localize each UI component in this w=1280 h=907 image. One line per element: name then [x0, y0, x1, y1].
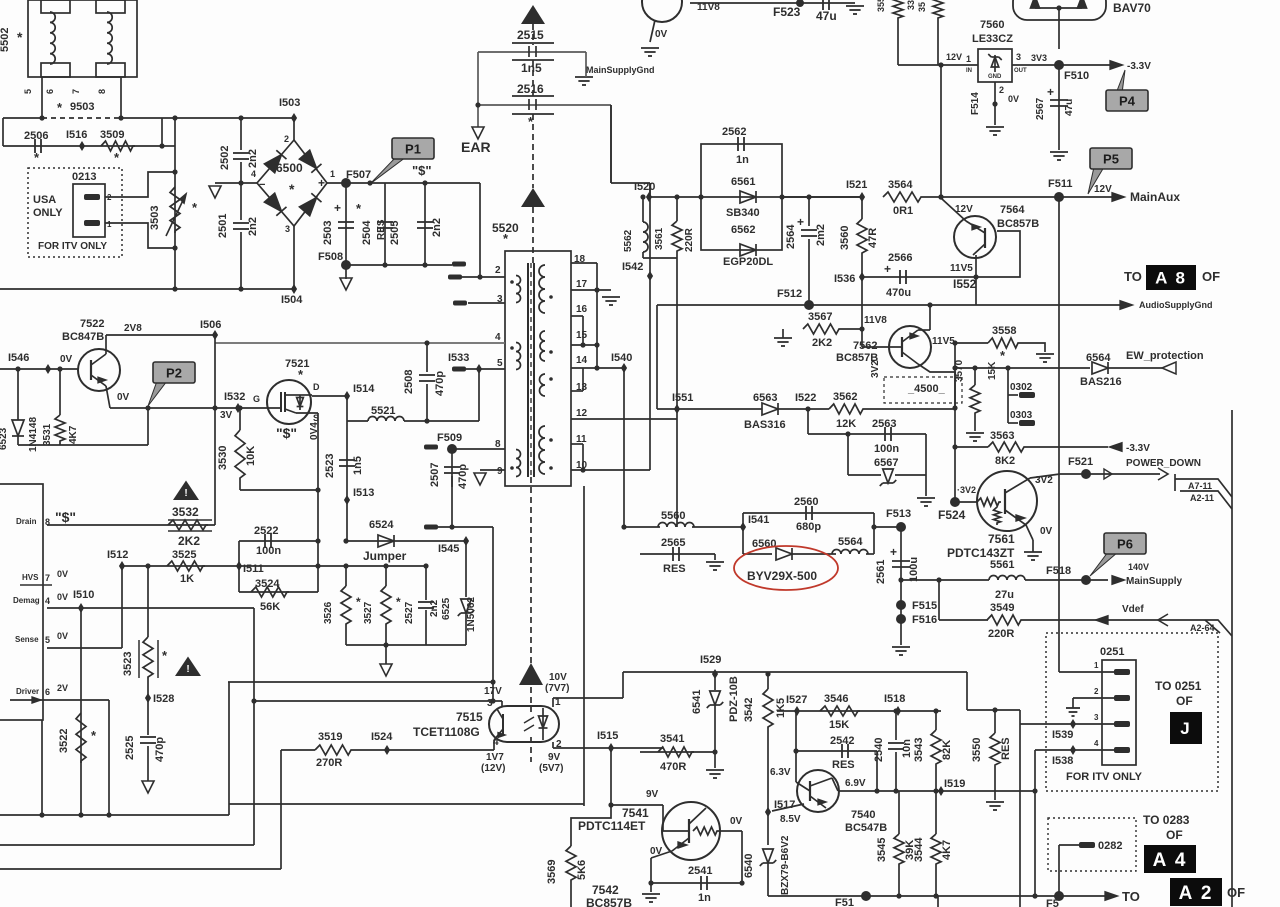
svg-text:3525: 3525	[172, 549, 196, 561]
wire 6523 bottom	[17, 436, 19, 445]
junction	[648, 880, 653, 885]
svg-text:POWER_DOWN: POWER_DOWN	[1126, 458, 1201, 469]
wire rail 566 ext	[318, 565, 426, 567]
node F521	[1081, 469, 1091, 479]
junction	[871, 524, 876, 529]
mosfet body diode link	[299, 395, 301, 410]
svg-text:MainSupply: MainSupply	[1126, 576, 1183, 587]
wire 2542 right drop	[876, 751, 878, 791]
wire pin14 I540	[571, 367, 624, 369]
resistor 3523	[143, 637, 153, 679]
resistor 3542 1K5	[763, 689, 773, 729]
mosfet 7521	[267, 380, 311, 424]
arrow -3.3V right	[1109, 443, 1122, 452]
svg-text:2527: 2527	[404, 601, 415, 624]
junction	[952, 444, 957, 449]
svg-text:P6: P6	[1117, 537, 1133, 552]
diode 6561 SB340	[740, 191, 756, 203]
wire 3541 rail	[640, 751, 715, 753]
tag A7-11 outline	[1175, 479, 1232, 497]
wire 2507 drop	[451, 449, 453, 487]
wire 7564 emitter up	[942, 199, 966, 221]
pad bottom	[424, 525, 438, 530]
junction	[952, 405, 957, 410]
ground F516	[892, 647, 910, 655]
svg-text:I513: I513	[353, 487, 374, 499]
transformer core left	[527, 263, 529, 477]
transistor 7541 emitter	[672, 838, 689, 851]
wire 0251 pin1	[1059, 671, 1114, 673]
wire rail I512-I511	[122, 565, 318, 567]
wire mainsupply rail a	[901, 579, 989, 581]
wire ycap link	[478, 51, 586, 53]
wire F524 base	[955, 501, 977, 503]
svg-text:2541: 2541	[688, 865, 712, 877]
svg-text:I539: I539	[1052, 729, 1073, 741]
pad pin3	[453, 301, 467, 306]
capacitor 2566 470u	[900, 270, 906, 284]
regulator glyph stem	[994, 55, 996, 72]
wire I546 base	[0, 368, 78, 370]
resistor 3560 47R	[857, 219, 867, 255]
transistor 7540 emitter arrow	[818, 799, 826, 805]
junction	[927, 302, 932, 307]
wire join 5562 3561	[643, 257, 677, 259]
svg-text:7542: 7542	[592, 883, 619, 897]
wire 2527 bot	[425, 610, 427, 645]
3523 side bar right	[157, 640, 159, 678]
svg-text:2522: 2522	[254, 525, 278, 537]
tag A2-64 diag	[1205, 620, 1220, 633]
svg-text:7522: 7522	[80, 318, 104, 330]
svg-text:EW_protection: EW_protection	[1126, 350, 1204, 362]
wire F511 bus down	[1058, 197, 1060, 672]
wire 3561 top	[676, 197, 678, 221]
svg-text:1K: 1K	[180, 573, 194, 585]
wire bridge out to F507	[327, 182, 346, 184]
junction	[898, 577, 903, 582]
ground 3567	[774, 338, 792, 346]
transistor 7541 emitter arrow	[678, 842, 687, 848]
junction	[238, 115, 243, 120]
svg-text:I503: I503	[279, 97, 300, 109]
svg-text:PDTC114ET: PDTC114ET	[578, 819, 646, 833]
svg-text:3562: 3562	[833, 391, 857, 403]
svg-text:2563: 2563	[872, 418, 896, 430]
transistor 7564	[954, 216, 996, 258]
svg-text:"$": "$"	[412, 163, 432, 178]
bridge 6500 outline	[257, 140, 327, 226]
node I503	[291, 113, 297, 123]
opto led	[539, 716, 548, 728]
transformer 5502 pad top-right	[96, 0, 125, 13]
wire opto pin4 rail	[353, 749, 494, 751]
wire 3558 gnd	[1020, 343, 1045, 352]
node I520	[646, 192, 652, 202]
resistor 3561 220R	[672, 221, 682, 253]
capacitor 2503	[338, 222, 354, 228]
svg-text:G: G	[253, 394, 260, 404]
resistor 3569 5K6	[566, 846, 576, 882]
winding dot	[510, 346, 514, 350]
wire I529 rail corner	[966, 672, 968, 710]
diode BAV70 left	[1031, 0, 1040, 8]
pad 0303	[1019, 420, 1035, 426]
node F524	[950, 497, 960, 507]
capacitor 2n2	[417, 222, 433, 228]
junction	[237, 405, 242, 410]
wire 0213 pin1	[105, 223, 175, 248]
svg-text:3523: 3523	[122, 652, 134, 676]
node I521	[859, 192, 865, 202]
svg-text:SB340: SB340	[726, 207, 760, 219]
wire 3543 drop	[935, 711, 937, 730]
wire 3550 drop	[994, 710, 996, 733]
svg-text:3567: 3567	[808, 311, 832, 323]
junction	[343, 538, 348, 543]
wire 0302 stub	[1008, 394, 1018, 396]
svg-text:0R1: 0R1	[893, 205, 913, 217]
wire 3563 rail	[955, 446, 988, 448]
wire mainsupply rail b	[1025, 579, 1108, 581]
svg-text:I504: I504	[281, 294, 303, 306]
box J	[1170, 712, 1202, 744]
junction	[159, 143, 164, 148]
svg-text:1V7: 1V7	[486, 752, 504, 763]
wire 3530 bottom	[239, 480, 241, 490]
wire transformer left drop	[583, 486, 585, 806]
ground arrow 2525	[142, 781, 154, 793]
winding dot	[549, 350, 553, 354]
junction	[172, 286, 177, 291]
svg-text:27u: 27u	[995, 589, 1014, 601]
wire bottom join	[18, 444, 148, 446]
svg-text:I512: I512	[107, 549, 128, 561]
svg-text:F511: F511	[1048, 178, 1072, 190]
wire mosfet drain	[312, 395, 347, 397]
wire 5562 top	[642, 197, 644, 222]
resistor 3530 10K	[235, 430, 245, 480]
wire 5562 bot	[642, 252, 644, 258]
wire 7561 emitter down	[1026, 525, 1033, 540]
svg-text:3564: 3564	[888, 179, 913, 191]
svg-text:3530: 3530	[217, 446, 229, 470]
svg-text:8K2: 8K2	[995, 455, 1015, 467]
wire opto pin4	[493, 740, 495, 750]
svg-text:I546: I546	[8, 352, 29, 364]
resistor 3567 2K2	[803, 324, 841, 334]
transformer 5502 body	[28, 0, 137, 77]
wire 7541 base	[662, 805, 664, 831]
junction	[992, 101, 997, 106]
wire 7540 emitter to I517	[772, 804, 804, 811]
junction	[1032, 893, 1037, 898]
junction	[15, 366, 20, 371]
junction	[640, 194, 645, 199]
wire sense riser I512	[121, 566, 123, 648]
svg-text:I510: I510	[73, 589, 94, 601]
svg-text:5521: 5521	[371, 405, 395, 417]
transistor 7561 emitter	[1005, 510, 1026, 525]
svg-text:11V8: 11V8	[864, 315, 887, 326]
ground arrow F508	[340, 278, 352, 290]
capacitor 2501	[233, 223, 249, 229]
svg-text:3541: 3541	[660, 733, 684, 745]
svg-text:"$": "$"	[276, 425, 297, 441]
svg-text:!: !	[184, 488, 187, 499]
bridge diode top-right	[300, 150, 322, 172]
wire 3544 drop	[935, 791, 937, 834]
wire 3542 drop	[767, 674, 769, 689]
resistor 7561 internal	[977, 498, 1001, 506]
diode 6567	[880, 469, 897, 486]
svg-text:6564: 6564	[1086, 352, 1111, 364]
box A2	[1170, 878, 1222, 906]
svg-text:Drain: Drain	[16, 517, 37, 526]
wire I520 rail	[649, 196, 862, 198]
svg-text:3V2: 3V2	[870, 360, 881, 378]
svg-text:+: +	[318, 176, 325, 190]
svg-text:I527: I527	[786, 694, 807, 706]
svg-text:14: 14	[576, 355, 588, 366]
node F511	[1054, 192, 1064, 202]
wire collector rail I506	[106, 334, 215, 336]
svg-text:F515: F515	[912, 600, 937, 612]
svg-text:F513: F513	[886, 508, 911, 520]
svg-text:2V: 2V	[57, 683, 68, 693]
svg-text:100u: 100u	[908, 557, 920, 582]
capacitor 2502	[233, 153, 249, 159]
junction	[1005, 365, 1010, 370]
wire cap2n2	[424, 183, 426, 265]
resistor 3546 15K	[820, 706, 860, 716]
wire 6541 drop	[714, 674, 716, 690]
wire 3569 bottom	[570, 882, 572, 907]
wire snubber gnd stub	[385, 645, 387, 664]
svg-text:I536: I536	[834, 273, 855, 285]
svg-text:11V5: 11V5	[950, 263, 973, 274]
warning triangle 3532	[173, 481, 199, 501]
resistor 3558	[988, 338, 1020, 348]
capacitor 2562 1n	[738, 137, 744, 151]
svg-text:5562: 5562	[623, 229, 634, 252]
capacitor 2527	[418, 602, 434, 608]
svg-text:BZX79-B6V2: BZX79-B6V2	[780, 835, 791, 895]
pad pin2	[448, 275, 462, 280]
wire I551 to 6563	[677, 408, 762, 410]
svg-text:0251: 0251	[1100, 646, 1124, 658]
svg-text:_4500_: _4500_	[907, 383, 946, 395]
svg-text:100n: 100n	[256, 545, 281, 557]
junction	[874, 788, 879, 793]
svg-text:15K: 15K	[829, 719, 849, 731]
node I546	[45, 364, 51, 374]
svg-text:F51: F51	[835, 897, 854, 907]
wire 2564 to F512	[808, 239, 810, 305]
wire 6560 branch	[743, 553, 772, 555]
svg-text:7562: 7562	[853, 340, 877, 352]
wire 2563 rail	[808, 433, 926, 435]
svg-text:1: 1	[966, 54, 971, 64]
wire mains top rail right	[121, 117, 294, 119]
svg-text:680p: 680p	[796, 521, 821, 533]
resistor top a	[893, 0, 903, 20]
EAR arrow	[472, 127, 484, 139]
wire rail C riser	[253, 608, 255, 845]
wire 3530 top	[239, 408, 241, 430]
svg-text:*: *	[356, 595, 361, 609]
wire I521 mid	[782, 196, 862, 198]
wire jumper rail	[346, 540, 466, 542]
wire audiosupplygnd	[953, 304, 1120, 306]
wire 3531 drop	[59, 369, 61, 415]
svg-text:I532: I532	[224, 391, 245, 403]
node I517	[765, 807, 771, 817]
svg-text:4: 4	[45, 596, 50, 606]
svg-text:F514: F514	[970, 92, 981, 115]
wire 3569 jog	[571, 805, 611, 846]
diode 6525	[458, 599, 475, 616]
node I539	[1070, 719, 1076, 729]
wire EW rail2	[1108, 367, 1162, 369]
winding dot	[549, 466, 553, 470]
wire cap2504	[384, 183, 386, 265]
arrowhead vdef	[1158, 614, 1168, 626]
junction	[343, 563, 348, 568]
junction	[938, 194, 943, 199]
junction	[315, 487, 320, 492]
node I545	[463, 536, 469, 546]
svg-text:P4: P4	[1119, 94, 1136, 109]
resistor 3570 15K	[970, 385, 980, 415]
ground 3550	[986, 802, 1004, 810]
wire 2508 bottom	[426, 384, 428, 421]
wire pin11 link	[582, 444, 584, 470]
node I538	[1070, 745, 1076, 755]
svg-text:2n2: 2n2	[431, 218, 443, 237]
node I518	[895, 706, 901, 716]
wire 2567 drop	[1058, 65, 1060, 150]
wire I515 rail	[553, 747, 663, 749]
wire pin9	[480, 469, 505, 471]
svg-text:0V: 0V	[60, 354, 73, 365]
wire 2522 branch	[239, 540, 318, 542]
wire I522 drop	[807, 409, 809, 434]
wire 3560 drop	[861, 197, 863, 219]
wire 2525 bottom	[147, 746, 149, 781]
wire 3527 drop	[385, 566, 387, 586]
resistor 3564 0R1	[883, 192, 923, 202]
svg-text:6567: 6567	[874, 457, 898, 469]
ground top transistor	[641, 48, 659, 56]
capacitor 2504 2505 res	[377, 222, 393, 228]
svg-text:12: 12	[576, 408, 588, 419]
svg-text:BYV29X-500: BYV29X-500	[747, 569, 817, 583]
svg-text:2n2: 2n2	[247, 217, 259, 236]
wire opto pin1 riser	[622, 672, 624, 698]
junction	[145, 405, 150, 410]
wire EW rail	[955, 367, 1090, 369]
svg-text:"$": "$"	[55, 509, 76, 525]
transistor 7564 emitter	[966, 221, 985, 233]
transistor 7522 collector	[91, 354, 106, 365]
svg-text:D: D	[313, 382, 320, 392]
svg-text:2508: 2508	[403, 370, 415, 394]
wire 0302 bus	[1007, 368, 1009, 423]
svg-text:I511: I511	[243, 563, 264, 575]
svg-text:OF: OF	[1176, 694, 1193, 708]
svg-text:3522: 3522	[58, 729, 70, 753]
isolation dashed line mid2	[532, 114, 534, 188]
svg-text:10n: 10n	[901, 739, 913, 758]
capacitor 2516	[512, 96, 554, 114]
transistor 7562 base bar	[901, 337, 903, 357]
resistor 3544 4K7	[931, 834, 941, 866]
wire vdef	[1023, 619, 1205, 621]
svg-text:I522: I522	[795, 392, 816, 404]
svg-text:I540: I540	[611, 352, 632, 364]
svg-text:2: 2	[284, 134, 289, 144]
svg-text:47R: 47R	[867, 228, 879, 248]
svg-text:A 4: A 4	[1153, 850, 1188, 871]
node I522	[805, 406, 810, 411]
svg-text:·3V2: ·3V2	[957, 485, 976, 495]
svg-text:3V: 3V	[220, 410, 233, 421]
svg-text:+: +	[334, 201, 341, 215]
wire 2541 rail	[651, 882, 742, 884]
svg-text:2560: 2560	[794, 496, 818, 508]
wire F512 rail	[657, 304, 953, 306]
wire 7562 collector	[918, 364, 955, 408]
capacitor 2522	[265, 534, 271, 548]
svg-text:17V: 17V	[484, 686, 502, 697]
wire filter right side	[161, 118, 163, 146]
svg-text:8: 8	[45, 517, 50, 527]
transformer 5502 left winding	[50, 12, 55, 64]
svg-text:MainSupplyGnd: MainSupplyGnd	[586, 65, 655, 75]
svg-text:BC847B: BC847B	[62, 331, 104, 343]
svg-text:3: 3	[1094, 713, 1099, 722]
transformer sec ground	[602, 297, 620, 305]
junction	[490, 698, 495, 703]
transformer 5520 body	[505, 251, 571, 486]
ground arrow at bridge minus	[209, 186, 221, 198]
box 4500 dashed	[884, 377, 962, 403]
resistor 3519 270R	[315, 745, 353, 755]
svg-text:1n: 1n	[698, 892, 711, 904]
node I551	[674, 404, 680, 414]
svg-text:I506: I506	[200, 319, 221, 331]
wire rail D riser	[280, 750, 282, 869]
transistor 7541 collector	[689, 808, 706, 824]
transformer core right	[533, 263, 535, 477]
wire pin12 long	[571, 418, 677, 420]
transistor 7564 collector	[973, 244, 985, 255]
svg-text:*: *	[289, 181, 295, 197]
winding dot	[549, 377, 553, 381]
wire drain rail	[47, 524, 215, 526]
svg-text:TO 0251: TO 0251	[1155, 679, 1202, 693]
isolation dashed line mid3	[532, 207, 534, 266]
wire 6560 down	[742, 527, 744, 554]
svg-text:FOR ITV ONLY: FOR ITV ONLY	[1066, 771, 1143, 783]
wire I515 drop	[610, 748, 612, 805]
capacitor 2541	[701, 876, 707, 890]
wire 6525 bot	[465, 613, 467, 645]
resistor 3541 470R	[658, 747, 694, 757]
junction	[594, 365, 599, 370]
resistor 3550 RES	[990, 733, 1000, 767]
